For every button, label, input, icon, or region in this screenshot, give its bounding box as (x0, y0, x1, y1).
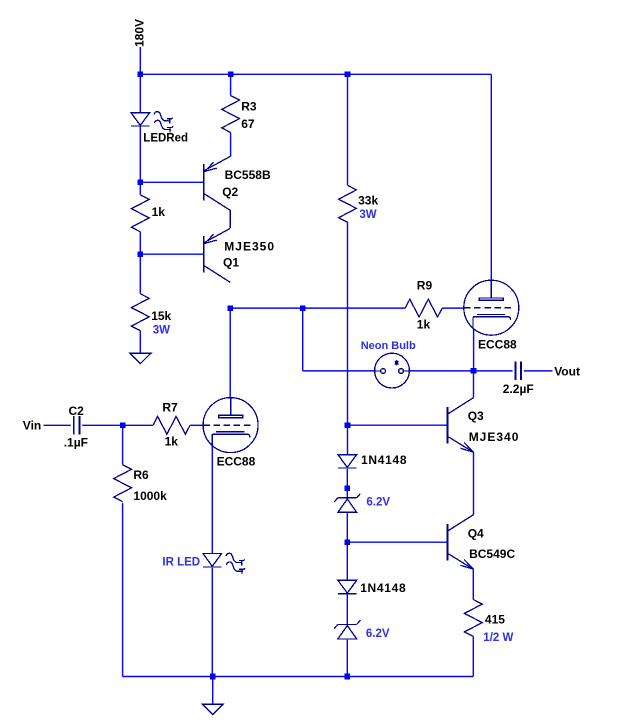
wire C2 to node (82, 424, 122, 426)
svg-text:3W: 3W (359, 209, 376, 221)
wire U1 cathode to LED2 (211, 446, 213, 554)
svg-text:1/2 W: 1/2 W (483, 632, 513, 644)
wire Z2 to bottom rail (346, 640, 348, 677)
junction Q2 base node (138, 180, 144, 186)
junction neon tap (300, 305, 306, 311)
svg-text:R7: R7 (162, 401, 178, 415)
wire Q2 collector to Q1 emitter (229, 210, 231, 228)
wire down to neon (302, 308, 304, 371)
wire R7 to U1 grid (190, 424, 203, 426)
svg-text:33k: 33k (358, 194, 378, 208)
IR LED light arrows (226, 553, 245, 574)
svg-text:415: 415 (485, 612, 505, 626)
svg-text:1k: 1k (152, 205, 166, 219)
svg-text:1N4148: 1N4148 (361, 453, 407, 467)
wire R4 to D1 (347, 222, 349, 454)
triode U2 ECC88 (464, 280, 519, 335)
svg-text:MJE350: MJE350 (224, 240, 275, 254)
diode D2 1N4148 (338, 580, 357, 593)
wire R2 to ground (139, 331, 141, 354)
svg-text:Neon Bulb: Neon Bulb (361, 340, 416, 352)
junction bus R4 (345, 72, 351, 78)
svg-text:Q4: Q4 (468, 526, 484, 540)
LED IR LED (203, 554, 222, 567)
LEDRed light arrows (154, 112, 173, 133)
svg-text:1000k: 1000k (133, 489, 167, 503)
junction Q1 collector node (227, 305, 233, 311)
junction Vin node (120, 423, 126, 429)
svg-text:Q1: Q1 (223, 256, 239, 270)
resistor R9 1k (405, 299, 442, 317)
junction Q3 base node (345, 422, 351, 428)
wire Vin to C2 (44, 424, 71, 426)
wire bus to LED1 (139, 74, 141, 112)
wire node to R7 (123, 424, 153, 426)
wire LED1 to R1 (139, 126, 141, 195)
svg-text:C2: C2 (69, 404, 85, 418)
svg-text:6.2V: 6.2V (366, 496, 390, 508)
svg-text:Q2: Q2 (222, 185, 238, 199)
svg-text:R6: R6 (133, 468, 149, 482)
zener Z1 6.2V (334, 494, 360, 513)
svg-text:ECC88: ECC88 (217, 454, 256, 468)
svg-text:R9: R9 (417, 279, 433, 293)
wire neon to out node (409, 370, 473, 372)
wire Q1 collector to R9 (230, 307, 405, 309)
svg-text:BC549C: BC549C (469, 547, 515, 561)
neon bulb (375, 353, 410, 388)
wire bottom rail (123, 676, 474, 678)
wire D1 to Z1 (346, 469, 348, 498)
wire to U1 plate (229, 308, 231, 398)
wire D2 to Z2 (346, 595, 348, 625)
junction Q1 base node (138, 251, 144, 257)
wire R9 to U2 grid (442, 307, 464, 309)
svg-text:ECC88: ECC88 (478, 337, 517, 351)
wire right rail to U2 plate (490, 74, 492, 280)
transistor Q1 MJE350 (204, 228, 231, 282)
svg-text:3W: 3W (153, 325, 170, 337)
wire R3 to Q2 emitter (230, 133, 232, 157)
wire Q4 emitter to R8 (472, 569, 474, 599)
svg-text:180V: 180V (133, 19, 147, 47)
capacitor C3 2.2uF (515, 362, 521, 380)
ground 1 (130, 353, 151, 363)
resistor R8 415 (464, 600, 482, 637)
wire Q1 base (140, 253, 203, 255)
wire Q3 emitter to Q4 collector (473, 452, 475, 515)
svg-text:R3: R3 (241, 99, 257, 113)
zener Z2 6.2V (334, 620, 360, 639)
svg-text:Vin: Vin (23, 419, 41, 433)
wire Q3 base (348, 424, 447, 426)
LED LEDRed (131, 113, 150, 126)
junction bottom rail ground (210, 674, 216, 680)
svg-text:LEDRed: LEDRed (143, 132, 188, 144)
wire R8 to bottom rail (472, 637, 474, 677)
wire out node to C3 (474, 370, 513, 372)
svg-text:Q3: Q3 (468, 409, 484, 423)
resistor R4 33k (339, 185, 357, 222)
triode U1 ECC88 (203, 398, 258, 453)
wire top bus (140, 73, 491, 75)
svg-text:Vout: Vout (554, 364, 580, 378)
wire bus to R3 (230, 74, 232, 95)
wire to ground 2 (212, 677, 214, 705)
wire Q4 base (347, 541, 447, 543)
resistor R7 1k (153, 416, 190, 434)
ground 2 (202, 704, 223, 714)
svg-text:1k: 1k (417, 318, 431, 332)
wire LED2 to bottom rail (211, 568, 213, 677)
svg-text:.1µF: .1µF (64, 435, 88, 449)
transistor Q3 MJE340 (447, 398, 473, 453)
junction Q4 base node (345, 539, 351, 545)
svg-text:1N4148: 1N4148 (360, 581, 406, 595)
svg-text:15k: 15k (151, 309, 171, 323)
svg-text:6.2V: 6.2V (366, 628, 390, 640)
resistor R1 1k (131, 195, 149, 232)
wire U2 cathode down (473, 329, 475, 371)
wire Z1 to D2 (346, 513, 348, 580)
svg-text:MJE340: MJE340 (469, 430, 520, 444)
junction bus left (138, 72, 144, 78)
wire R1 to R2 (139, 232, 141, 294)
diode D1 1N4148 (338, 455, 357, 468)
wire 180V feed (139, 47, 141, 74)
wire R6 to bottom rail (122, 503, 124, 676)
junction bus R3 (228, 72, 234, 78)
wire out node to Q3 collector (473, 371, 475, 398)
svg-text:2.2µF: 2.2µF (503, 382, 534, 396)
wire bus to R4 33k (347, 74, 349, 185)
wire Q2 base (140, 181, 203, 183)
svg-text:67: 67 (241, 117, 255, 131)
junction D1-Z1 (345, 485, 351, 491)
transistor Q4 BC549C (447, 515, 473, 570)
transistor Q2 BC558B (204, 156, 231, 210)
resistor R3 67 (222, 96, 240, 133)
junction bottom rail diode chain (345, 674, 351, 680)
capacitor C2 (74, 416, 80, 434)
wire C3 to Vout (524, 370, 553, 372)
svg-text:1k: 1k (165, 435, 179, 449)
resistor R2 15k (131, 294, 149, 331)
svg-text:IR LED: IR LED (162, 556, 200, 568)
wire to neon bulb (303, 370, 375, 372)
junction output node (471, 368, 477, 374)
resistor R6 1000k (114, 465, 132, 502)
svg-text:BC558B: BC558B (225, 168, 271, 182)
wire node to R6 (122, 425, 124, 464)
